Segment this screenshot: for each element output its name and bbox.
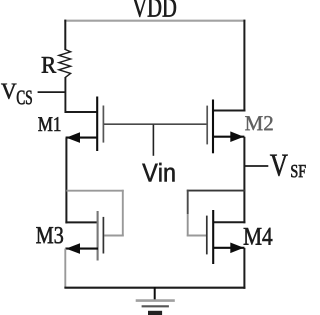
- wire M1 source with arrow: [66, 137, 98, 139]
- wire M2 source down to M4 drain node: [243, 137, 245, 224]
- wire M3 gate loop bottom (grey): [104, 235, 124, 237]
- wire VCS horizontal: [38, 91, 66, 93]
- transistor M1 label: [38, 117, 60, 131]
- wire left VDD drop to resistor: [64, 20, 66, 50]
- transistor M2 label: [245, 116, 272, 130]
- arrowhead M1 source: [66, 132, 80, 143]
- wire bottom ground rail: [64, 287, 245, 289]
- arrowhead M3 source: [66, 243, 80, 254]
- ground symbol bar 1 (grey): [136, 299, 175, 302]
- transistor M3 label: [36, 227, 63, 243]
- wire M4 source down to ground rail: [243, 248, 245, 289]
- wire M4 gate loop left vertical upper: [187, 190, 189, 214]
- node VCS label: [1, 84, 16, 99]
- wire M4 gate loop left vertical lower: [187, 214, 189, 236]
- wire M3 source down to ground rail (grey): [64, 249, 66, 288]
- node VSF label: [270, 155, 288, 176]
- arrowhead M2 source: [230, 131, 244, 142]
- transistor M2 channel bar: [212, 100, 214, 154]
- net label Vin: [142, 163, 174, 182]
- wire M4 gate loop top: [187, 190, 246, 192]
- transistor M3 gate bar: [102, 217, 104, 254]
- resistor label R: [42, 57, 57, 73]
- transistor M3 channel bar: [97, 211, 99, 261]
- ground symbol bar 3: [148, 311, 162, 315]
- transistor M2 gate bar: [206, 106, 208, 145]
- wire M3 drain: [65, 221, 98, 223]
- transistor M1 channel bar: [96, 97, 98, 152]
- transistor M1 gate bar: [102, 106, 104, 143]
- wire M1 drain: [65, 111, 98, 113]
- wire M3 source with arrow: [65, 248, 98, 250]
- ground symbol bar 2: [142, 305, 169, 307]
- wire resistor bottom to M1 drain corner: [64, 77, 66, 113]
- transistor M4 label: [244, 228, 273, 245]
- wire M2 drain: [213, 110, 245, 112]
- wire M2 source with arrow: [213, 136, 244, 138]
- wire M1 source down to M3 drain node: [65, 138, 67, 224]
- wire VDD top rail (grey): [64, 20, 245, 22]
- net label VDD: [133, 0, 177, 17]
- transistor M4 channel bar: [212, 210, 214, 264]
- wire M4 drain: [213, 221, 245, 223]
- resistor R zigzag: [59, 50, 71, 78]
- wire M4 source with arrow: [213, 247, 244, 249]
- wire ground stem: [154, 287, 156, 300]
- wire M3 gate loop top (grey): [66, 190, 123, 192]
- wire M4 gate loop bottom (grey): [187, 235, 207, 237]
- wire right VDD drop to M2 drain: [243, 20, 245, 112]
- arrowhead M4 source: [230, 243, 244, 254]
- transistor M4 gate bar: [206, 216, 208, 255]
- wire Vin stub: [152, 125, 154, 156]
- wire Vin gate line between M1 and M2 gates: [104, 123, 207, 125]
- wire VSF horizontal: [245, 165, 268, 167]
- wire M3 gate loop right vertical (grey): [122, 190, 124, 237]
